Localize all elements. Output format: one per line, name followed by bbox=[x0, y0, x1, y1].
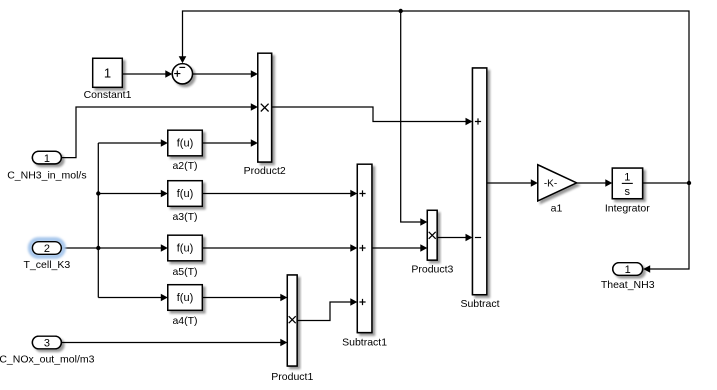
inport 2 T_cell_K3 (selected, blue halo) bbox=[24, 240, 71, 272]
svg-text:Subtract: Subtract bbox=[460, 298, 499, 310]
wire Product1 to Subtract1 input 3 bbox=[297, 298, 357, 320]
svg-text:f(u): f(u) bbox=[177, 188, 194, 200]
wire trunk to a4 bbox=[98, 294, 168, 302]
wire a4 to Product1 input 1 bbox=[202, 294, 287, 302]
gain a1 bbox=[538, 165, 577, 215]
product Product3 bbox=[411, 210, 453, 275]
wire Constant1 to Sum bbox=[123, 70, 173, 78]
svg-text:Integrator: Integrator bbox=[605, 203, 650, 215]
svg-text:a2(T): a2(T) bbox=[172, 160, 197, 172]
node junction trunk at a5 branch bbox=[96, 246, 100, 250]
svg-text:Product3: Product3 bbox=[411, 263, 453, 275]
wire Subtract to gain a1 bbox=[487, 179, 538, 187]
svg-text:s: s bbox=[625, 186, 631, 198]
svg-text:1: 1 bbox=[625, 264, 631, 276]
svg-text:f(u): f(u) bbox=[177, 138, 194, 150]
product Product2 bbox=[244, 53, 286, 177]
fcn a4(T) bbox=[168, 285, 203, 327]
subtract Subtract1 bbox=[342, 164, 387, 348]
svg-text:Product1: Product1 bbox=[271, 371, 313, 383]
svg-text:-K-: -K- bbox=[544, 178, 557, 189]
wire trunk to a2 bbox=[98, 139, 168, 147]
wire trunk from inport 2 (T_cell_K3 distribution) bbox=[61, 143, 98, 298]
wire gain a1 to Integrator bbox=[577, 179, 613, 187]
constant Constant1 bbox=[84, 58, 132, 101]
fcn a3(T) bbox=[168, 181, 203, 223]
subtract Subtract bbox=[460, 68, 499, 310]
svg-text:f(u): f(u) bbox=[177, 292, 194, 304]
sum block (round +|-) bbox=[172, 64, 192, 84]
wire inport 1 up to Product2 input 2 bbox=[61, 103, 257, 157]
node junction trunk at a3 branch bbox=[96, 191, 100, 195]
wire Product3 to Subtract minus input bbox=[437, 234, 472, 242]
fcn a2(T) bbox=[168, 130, 203, 172]
svg-text:a3(T): a3(T) bbox=[172, 211, 197, 223]
outport 1 Theat_NH3 bbox=[601, 263, 655, 291]
node junction at integrator output bbox=[687, 181, 691, 185]
svg-text:2: 2 bbox=[44, 243, 50, 255]
wire Product2 to Subtract plus input bbox=[272, 107, 473, 125]
integrator Integrator bbox=[605, 168, 650, 215]
inport 3 C_NOx_out_mol/m3 bbox=[0, 336, 95, 366]
svg-text:1: 1 bbox=[44, 153, 50, 165]
wire Integrator output to junction bbox=[643, 182, 689, 184]
svg-text:3: 3 bbox=[44, 338, 50, 350]
svg-text:1: 1 bbox=[104, 66, 111, 81]
product Product1 bbox=[271, 275, 313, 383]
wire branch from top junction down to Product3 input 1 bbox=[401, 11, 428, 226]
svg-text:Product2: Product2 bbox=[244, 165, 286, 177]
svg-text:T_cell_K3: T_cell_K3 bbox=[24, 259, 71, 271]
svg-text:a4(T): a4(T) bbox=[172, 315, 197, 327]
fcn a5(T) bbox=[168, 235, 203, 278]
inport 1 C_NH3_in_mol/s bbox=[7, 151, 86, 181]
svg-text:a5(T): a5(T) bbox=[172, 266, 197, 278]
svg-text:C_NH3_in_mol/s: C_NH3_in_mol/s bbox=[7, 170, 86, 182]
wire trunk to a5 bbox=[98, 244, 168, 252]
svg-text:1: 1 bbox=[624, 172, 630, 184]
wire junction down and left into outport Theat_NH3 bbox=[643, 183, 689, 273]
svg-text:f(u): f(u) bbox=[177, 243, 194, 255]
node junction on top feedback at x=400.7 bbox=[399, 9, 403, 13]
wire feedback top: integrator junction up and across to sum bbox=[179, 11, 689, 183]
wire inport 3 to Product1 input 2 bbox=[62, 339, 288, 347]
svg-text:Subtract1: Subtract1 bbox=[342, 337, 387, 349]
svg-text:Constant1: Constant1 bbox=[84, 89, 132, 101]
wire a2 to Product2 input 3 bbox=[202, 139, 257, 147]
wire a3 to Subtract1 input 1 bbox=[202, 190, 357, 198]
wire Sum to Product2 input 1 bbox=[193, 70, 258, 78]
svg-text:Theat_NH3: Theat_NH3 bbox=[601, 279, 655, 291]
wire trunk to a3 bbox=[98, 190, 168, 198]
wire Subtract1 to Product3 input 2 bbox=[372, 244, 427, 252]
svg-text:a1: a1 bbox=[551, 203, 563, 215]
wire a5 to Subtract1 input 2 bbox=[202, 244, 357, 252]
svg-text:C_NOx_out_mol/m3: C_NOx_out_mol/m3 bbox=[0, 354, 95, 366]
